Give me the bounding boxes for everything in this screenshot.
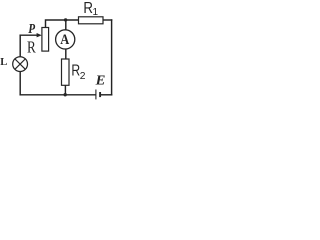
rheostat box R [42,28,49,52]
wire: wiper arrow shaft [20,34,38,36]
wire: lamp branch lower riser [19,71,21,95]
resistor R1 box [79,17,104,24]
junction dot bottom [63,93,66,96]
wire: right edge [111,20,113,95]
svg-text:2: 2 [80,71,86,82]
wire: junction to ammeter [65,20,67,30]
svg-text:E: E [95,73,106,88]
resistor R2 box [62,59,70,85]
wire: lamp branch upper riser [19,35,21,57]
wire: R2 to bottom junction [64,85,66,95]
svg-text:L: L [0,57,7,68]
wire: bottom left segment [20,94,95,96]
lamp X cross [15,59,25,69]
wire: top wire from R1 to right corner [103,19,112,21]
arrowhead of wiper P [37,33,42,37]
svg-text:1: 1 [93,7,99,18]
battery E long plate [95,90,97,100]
svg-text:A: A [60,32,69,48]
ammeter A circle [56,30,75,49]
junction dot top [64,18,67,21]
lamp L circle [13,57,28,72]
svg-text:R: R [27,38,36,57]
svg-text:P: P [28,21,35,36]
wire: bottom right segment [101,94,112,96]
battery E short plate [99,92,101,97]
wire: rheostat stub and top wire to R1 [46,20,79,28]
wire: ammeter to R2 [65,49,67,59]
